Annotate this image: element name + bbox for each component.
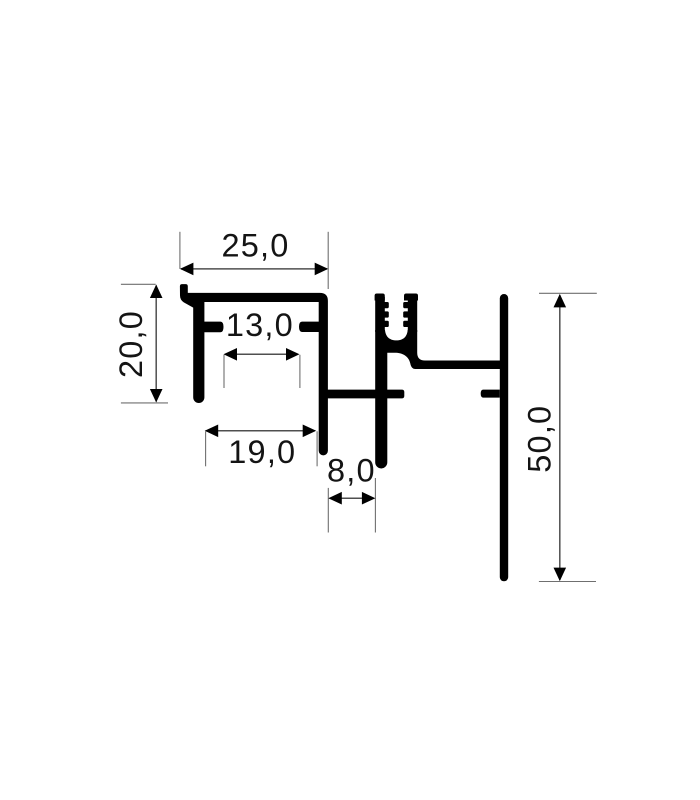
svg-text:50,0: 50,0	[521, 405, 557, 473]
svg-text:13,0: 13,0	[226, 307, 294, 343]
svg-text:19,0: 19,0	[228, 434, 296, 470]
svg-text:8,0: 8,0	[327, 453, 376, 489]
svg-text:25,0: 25,0	[221, 228, 289, 264]
svg-text:20,0: 20,0	[113, 310, 149, 378]
